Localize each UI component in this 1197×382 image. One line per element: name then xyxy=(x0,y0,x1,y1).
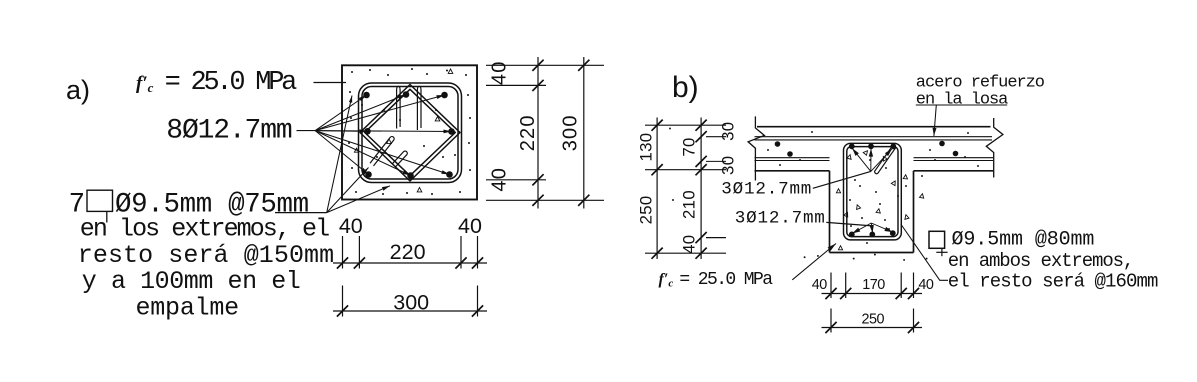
longitudinal bar A7 xyxy=(407,172,414,179)
label en la losa xyxy=(916,90,1008,109)
dimension chain b left inner xyxy=(696,118,707,260)
dim label 300 bottom xyxy=(393,291,429,315)
beam stirrup outer xyxy=(844,143,902,240)
label text row5 xyxy=(136,294,239,323)
beam bottom bar 2 xyxy=(869,232,875,238)
dim label 210 xyxy=(680,190,699,219)
top bars V leader lines xyxy=(852,148,892,171)
dim label 130 xyxy=(636,133,655,162)
dim label 40 bottom-left xyxy=(339,214,363,238)
fan leader to bar A6 xyxy=(315,131,368,175)
svg-text:40: 40 xyxy=(339,214,363,238)
part b) figure label xyxy=(672,71,699,104)
longitudinal bar A2 xyxy=(403,91,410,98)
dim label 30 top xyxy=(719,122,738,141)
extension lines b bottom chain1 xyxy=(831,273,914,299)
aggregate dots a) xyxy=(348,68,471,195)
beam stirrup inner xyxy=(847,147,898,237)
f'c strength label b) xyxy=(659,270,774,290)
svg-text:40: 40 xyxy=(458,214,482,238)
stirrup leader a3 xyxy=(327,186,390,213)
svg-text:el resto será @160mm: el resto será @160mm xyxy=(948,270,1158,292)
aggregate triangles a) xyxy=(354,69,452,192)
svg-text:Ø9.5mm @80mm: Ø9.5mm @80mm xyxy=(952,228,1095,251)
label 7 square ties row1 xyxy=(69,189,309,222)
dimension chain a right-2 xyxy=(578,57,589,209)
extension lines a bottom chain2 xyxy=(343,286,478,317)
fan leader to bar A7 xyxy=(315,131,410,176)
f'c leader b) xyxy=(792,244,836,280)
label en ambos extremos xyxy=(948,250,1133,272)
leader trunk 8Ø12.7mm xyxy=(297,130,316,132)
extension lines b bottom chain2 xyxy=(831,309,914,333)
svg-text:40: 40 xyxy=(918,277,934,293)
aggregate triangles b xyxy=(836,151,923,250)
tie hook A xyxy=(370,137,394,166)
label row1 underline xyxy=(275,212,327,214)
svg-text:y a 100mm en el: y a 100mm en el xyxy=(82,267,301,296)
svg-text:210: 210 xyxy=(680,190,699,219)
leader stirrup label b xyxy=(901,224,948,280)
dim label 170 b xyxy=(862,277,885,293)
crosstie hairpin right xyxy=(417,86,421,130)
longitudinal bar A6 xyxy=(365,171,372,178)
svg-text:30: 30 xyxy=(719,156,738,175)
dim label 40 right-bottom xyxy=(489,167,511,192)
svg-text:b): b) xyxy=(672,71,699,104)
svg-text:en los extremos, el: en los extremos, el xyxy=(80,215,329,244)
svg-text:en ambos extremos,: en ambos extremos, xyxy=(948,250,1133,272)
dim label 40 right-top xyxy=(489,60,511,85)
label 8Ø12.7mm xyxy=(166,116,292,147)
extension lines a bottom chain1 xyxy=(343,236,478,269)
longitudinal bar A4 xyxy=(364,128,371,135)
svg-text:40: 40 xyxy=(489,167,511,192)
fan leader to bar A3 xyxy=(315,95,444,131)
extension line a bottom xyxy=(486,199,604,201)
dim label 250 left xyxy=(636,195,655,224)
svg-text:40: 40 xyxy=(680,235,699,254)
aggregate dots b xyxy=(669,128,979,261)
diamond tie inner line xyxy=(365,89,456,175)
dim label 40 b-right xyxy=(918,277,934,293)
beam bottom bar 1 xyxy=(849,232,855,238)
svg-text:130: 130 xyxy=(636,133,655,162)
longitudinal bar A8 xyxy=(446,171,453,178)
acero underline xyxy=(916,104,1007,106)
beam bottom line xyxy=(830,252,914,254)
acero leader arrow xyxy=(933,105,937,136)
svg-text:220: 220 xyxy=(390,240,426,264)
svg-text:300: 300 xyxy=(393,291,429,315)
longitudinal bar A5 xyxy=(448,128,455,135)
slab right break line xyxy=(986,118,1003,178)
slab top rebar line 2 xyxy=(755,139,993,141)
beam top bar 3 xyxy=(890,143,896,149)
part a) figure label xyxy=(66,75,90,105)
extension lines b left xyxy=(645,125,726,253)
dim label 40 left xyxy=(680,235,699,254)
crosstie hairpin left xyxy=(397,86,401,128)
column tie inner line xyxy=(362,87,458,180)
leader 3Ø bottom xyxy=(826,222,872,226)
svg-text:= 25.0 MPa: = 25.0 MPa xyxy=(165,68,298,98)
dim label 30 bottom xyxy=(719,156,738,175)
dim label 40 bottom-right xyxy=(458,214,482,238)
label 3Ø12.7mm top xyxy=(721,180,812,200)
dim label 40 b-left xyxy=(812,277,828,293)
slab bar dot 4 xyxy=(953,151,959,157)
svg-text:40: 40 xyxy=(812,277,828,293)
stirrup leader a1 xyxy=(327,96,353,213)
slab left break line xyxy=(748,116,764,180)
stirrup symbol square b xyxy=(929,231,948,256)
dim label 70 xyxy=(680,137,699,156)
svg-text:en la losa: en la losa xyxy=(916,90,1008,109)
label acero refuerzo xyxy=(916,74,1045,93)
slab bar dot 1 xyxy=(775,141,781,147)
svg-text:170: 170 xyxy=(862,277,885,293)
fan leader to bar A5 xyxy=(315,130,451,134)
beam top bar 2 xyxy=(868,143,874,149)
svg-text:empalme: empalme xyxy=(136,294,239,323)
dim label 250 b xyxy=(862,312,885,328)
svg-text:30: 30 xyxy=(719,122,738,141)
dim label 300 right xyxy=(560,114,582,151)
diamond tie outer line xyxy=(360,85,460,182)
dim label 220 bottom xyxy=(390,240,426,264)
dimension chain a bottom-2 xyxy=(333,305,487,316)
slab bottom rebar line 1 xyxy=(755,157,994,159)
svg-text:= 25.0 MPa: = 25.0 MPa xyxy=(679,270,773,290)
dimension chain b bottom-1 xyxy=(822,288,923,299)
label text row2 xyxy=(80,215,329,244)
longitudinal bar A1 xyxy=(363,92,370,99)
tie hook B xyxy=(392,151,407,167)
fan leader to bar A4 xyxy=(315,129,367,133)
label 3Ø12.7mm bottom xyxy=(735,208,826,228)
leader 3Ø top xyxy=(813,171,871,188)
svg-text:70: 70 xyxy=(680,137,699,156)
beam web left line xyxy=(829,171,831,253)
svg-text:resto será @150mm: resto será @150mm xyxy=(78,241,334,270)
f'c strength label a) xyxy=(136,68,297,98)
svg-text:8Ø12.7mm: 8Ø12.7mm xyxy=(166,116,292,147)
concrete column outline 300x300 xyxy=(342,65,477,199)
dim label 220 right xyxy=(517,114,539,151)
beam bottom bar 3 xyxy=(890,230,896,236)
svg-text:3Ø12.7mm: 3Ø12.7mm xyxy=(721,180,812,200)
slab bar dot 2 xyxy=(787,151,793,157)
dimension chain b bottom-2 xyxy=(822,322,923,333)
bottom bars V leader lines xyxy=(852,223,892,233)
label text row4 xyxy=(82,267,301,296)
dimension chain b left outer xyxy=(652,118,663,260)
f'c leader a) xyxy=(314,82,347,84)
column tie outer line xyxy=(359,83,462,183)
dimension chain a right-1 xyxy=(532,57,543,209)
slab bar dot 3 xyxy=(939,141,945,147)
slab top line xyxy=(757,126,991,128)
fan leader to bar A1 xyxy=(315,95,366,131)
longitudinal bar A3 xyxy=(441,92,448,99)
svg-text:40: 40 xyxy=(489,60,511,85)
extension line a tie-top xyxy=(486,84,546,86)
beam web right line xyxy=(913,171,915,253)
fan leader to bar A2 xyxy=(315,95,406,131)
slab bottom rebar line 2 xyxy=(755,160,994,162)
slab bottom line xyxy=(755,170,994,172)
label Ø9.5mm @80mm xyxy=(952,228,1095,251)
stirrup leader a2 xyxy=(327,168,369,213)
svg-text:250: 250 xyxy=(862,312,885,328)
extension line a tie-bottom xyxy=(486,179,546,181)
svg-text:300: 300 xyxy=(560,114,582,151)
extension line a top xyxy=(486,64,604,66)
fan leader to bar A8 xyxy=(315,131,449,175)
slab top rebar line 1 xyxy=(755,136,993,138)
svg-text:220: 220 xyxy=(517,114,539,151)
svg-text:250: 250 xyxy=(636,195,655,224)
label el resto sera @160mm xyxy=(948,270,1158,292)
dimension chain a bottom-1 xyxy=(333,257,487,268)
beam top bar 1 xyxy=(849,143,855,149)
stirrup hook b xyxy=(875,145,896,173)
label text row3 xyxy=(78,241,334,270)
svg-text:a): a) xyxy=(66,75,90,105)
svg-text:3Ø12.7mm: 3Ø12.7mm xyxy=(735,208,826,228)
